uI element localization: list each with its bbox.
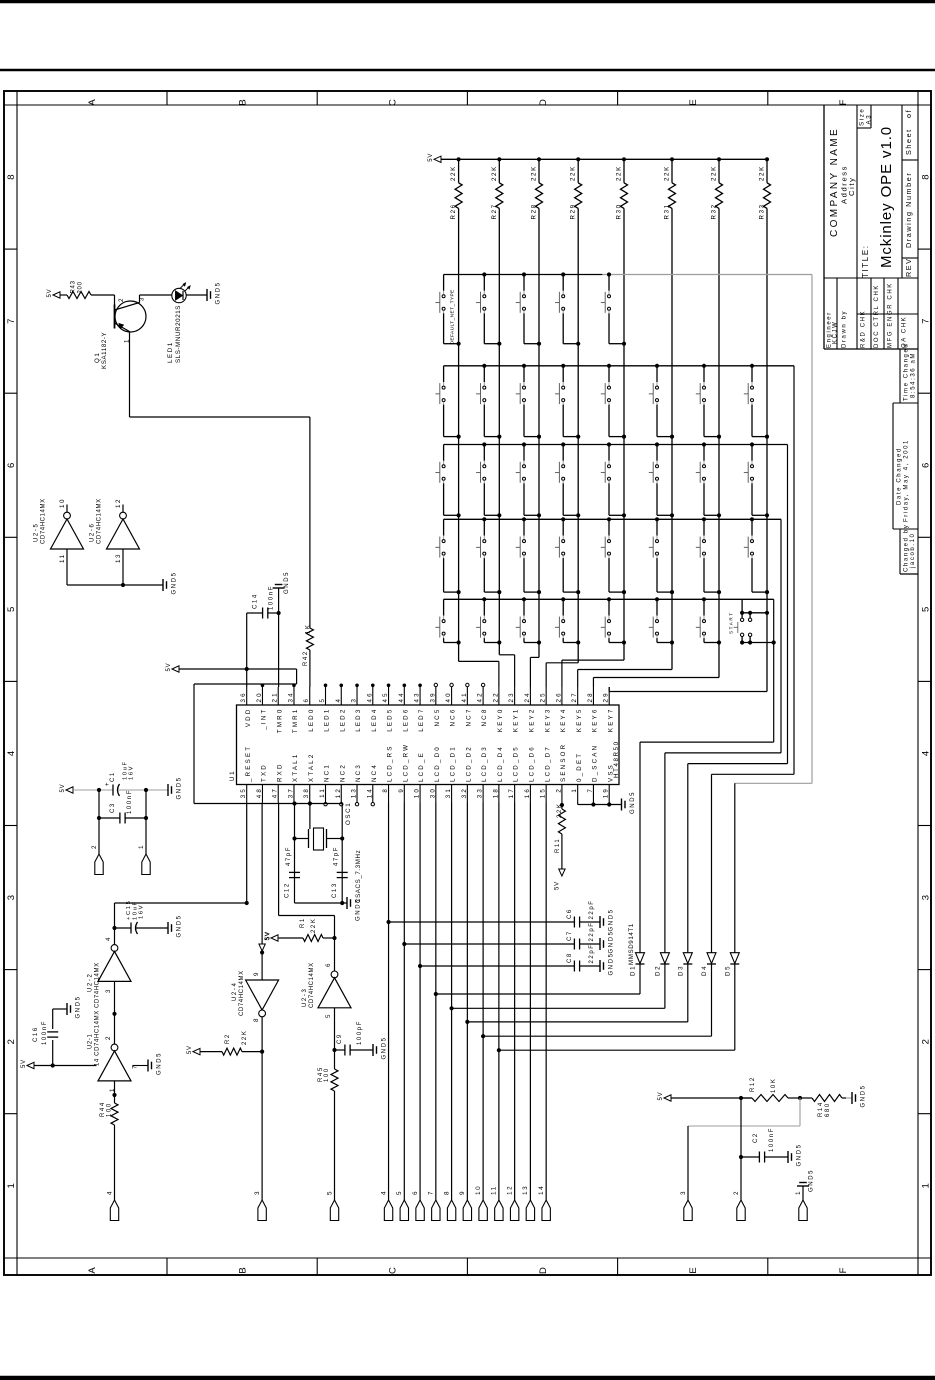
svg-text:XTAL2: XTAL2: [308, 753, 315, 782]
svg-text:30: 30: [429, 787, 436, 798]
svg-text:16V: 16V: [139, 904, 145, 919]
svg-text:34: 34: [287, 691, 294, 702]
svg-text:11: 11: [319, 787, 326, 798]
svg-text:GND5: GND5: [609, 930, 615, 953]
svg-text:100nF: 100nF: [42, 1020, 48, 1045]
svg-text:7: 7: [587, 787, 594, 793]
svg-text:31: 31: [445, 787, 452, 798]
svg-text:GND5: GND5: [797, 1143, 803, 1166]
svg-text:8: 8: [921, 174, 932, 179]
svg-text:C7: C7: [567, 930, 573, 941]
svg-text:26: 26: [555, 691, 562, 702]
svg-text:KEY4: KEY4: [560, 708, 567, 733]
svg-text:B: B: [237, 99, 248, 105]
svg-text:LCD_D3: LCD_D3: [481, 745, 488, 782]
svg-text:NC5: NC5: [434, 708, 441, 727]
svg-text:R44: R44: [100, 1101, 106, 1117]
svg-text:COMPANY NAME: COMPANY NAME: [829, 127, 840, 237]
svg-text:6: 6: [6, 463, 17, 468]
svg-text:5: 5: [325, 1013, 332, 1018]
svg-text:LCD_RW: LCD_RW: [402, 743, 409, 782]
svg-text:6: 6: [325, 962, 332, 967]
svg-text:LED3: LED3: [355, 708, 362, 732]
svg-text:Changed by: Changed by: [904, 524, 910, 572]
svg-text:R43: R43: [71, 280, 77, 293]
svg-text:KSA1182-Y: KSA1182-Y: [101, 332, 108, 369]
svg-text:40: 40: [445, 691, 452, 702]
svg-text:1K: 1K: [306, 623, 312, 634]
svg-text:17: 17: [508, 787, 515, 798]
svg-text:3: 3: [105, 988, 112, 993]
svg-text:8: 8: [382, 787, 389, 793]
svg-text:F: F: [838, 99, 849, 105]
svg-text:5V: 5V: [658, 1092, 664, 1101]
svg-text:42: 42: [477, 691, 484, 702]
svg-text:TMR0: TMR0: [276, 708, 283, 734]
svg-text:C14: C14: [253, 593, 259, 609]
svg-text:22pF: 22pF: [589, 899, 595, 919]
svg-text:REV: REV: [904, 257, 913, 277]
svg-text:LED0: LED0: [308, 708, 315, 732]
svg-text:35: 35: [240, 787, 247, 798]
svg-text:13: 13: [351, 787, 358, 798]
svg-text:22pF: 22pF: [589, 921, 595, 941]
svg-text:TMR1: TMR1: [292, 708, 299, 734]
svg-text:Mckinley OPE v1.0: Mckinley OPE v1.0: [878, 126, 895, 268]
svg-text:7: 7: [132, 1064, 139, 1069]
svg-text:5V: 5V: [166, 663, 172, 672]
svg-text:DOC CTRL CHK: DOC CTRL CHK: [874, 284, 880, 348]
svg-text:NC1: NC1: [324, 763, 331, 782]
svg-text:C3: C3: [110, 802, 116, 813]
svg-text:C2: C2: [753, 1132, 759, 1143]
svg-text:R28: R28: [531, 203, 538, 219]
svg-text:16V: 16V: [129, 765, 135, 780]
svg-text:32: 32: [461, 787, 468, 798]
svg-text:U2-1: U2-1: [88, 1034, 94, 1049]
svg-text:U2-3: U2-3: [302, 988, 308, 1007]
svg-text:R1: R1: [300, 917, 306, 928]
svg-text:4: 4: [106, 1190, 113, 1195]
svg-text:LED2: LED2: [339, 708, 346, 732]
svg-text:44: 44: [398, 691, 405, 702]
svg-text:28: 28: [587, 691, 594, 702]
svg-text:GND5: GND5: [76, 995, 82, 1018]
svg-text:LED7: LED7: [418, 708, 425, 732]
svg-text:Time Changed: Time Changed: [904, 343, 910, 401]
svg-text:NC2: NC2: [339, 763, 346, 782]
svg-text:22K: 22K: [531, 165, 538, 181]
svg-text:1: 1: [6, 1183, 17, 1188]
svg-text:5: 5: [319, 697, 326, 703]
svg-text:NC3: NC3: [355, 763, 362, 782]
svg-text:9: 9: [459, 1190, 466, 1195]
svg-text:+: +: [105, 781, 111, 786]
svg-text:Size: Size: [859, 108, 866, 126]
svg-text:CSACS_7.3MHz: CSACS_7.3MHz: [355, 850, 362, 903]
svg-text:22K: 22K: [759, 165, 766, 181]
svg-text:8: 8: [6, 174, 17, 179]
svg-text:7: 7: [6, 319, 17, 324]
svg-text:C8: C8: [567, 952, 573, 963]
svg-text:8: 8: [443, 1190, 450, 1195]
svg-text:5V: 5V: [60, 784, 66, 793]
svg-text:GND5: GND5: [630, 791, 636, 814]
svg-text:8: 8: [253, 1017, 260, 1022]
svg-text:3: 3: [351, 697, 358, 703]
svg-text:Date Changed: Date Changed: [897, 447, 903, 505]
svg-text:100nF: 100nF: [127, 789, 133, 814]
svg-text:R&D CHK: R&D CHK: [861, 310, 867, 348]
svg-text:Drawn by: Drawn by: [842, 310, 848, 348]
svg-text:C6: C6: [567, 908, 573, 919]
svg-text:RXD: RXD: [276, 762, 283, 782]
svg-text:5: 5: [326, 1190, 333, 1195]
svg-text:12: 12: [335, 787, 342, 798]
svg-text:6: 6: [303, 697, 310, 703]
svg-text:D: D: [538, 1267, 549, 1274]
svg-text:41: 41: [461, 691, 468, 702]
svg-text:680: 680: [825, 1102, 831, 1117]
svg-text:1: 1: [571, 787, 578, 793]
svg-text:B: B: [237, 1267, 248, 1273]
svg-text:9: 9: [398, 787, 405, 793]
svg-text:GND5: GND5: [216, 281, 222, 304]
svg-text:KEY0: KEY0: [497, 708, 504, 733]
svg-text:SENSOR: SENSOR: [560, 743, 567, 782]
svg-text:C13: C13: [332, 882, 338, 898]
svg-text:TITLE:: TITLE:: [861, 244, 870, 278]
svg-text:9: 9: [253, 971, 260, 976]
svg-text:100: 100: [107, 1102, 113, 1117]
svg-text:GND5: GND5: [609, 952, 615, 975]
svg-text:4: 4: [335, 697, 342, 703]
svg-text:R32: R32: [711, 203, 718, 219]
svg-text:100: 100: [324, 1067, 330, 1082]
svg-text:22K: 22K: [616, 165, 623, 181]
svg-text:LCD_D7: LCD_D7: [544, 745, 551, 782]
svg-text:GND5: GND5: [861, 1084, 867, 1107]
svg-text:10: 10: [475, 1185, 482, 1195]
svg-text:LCD_RS: LCD_RS: [387, 744, 394, 782]
svg-text:47: 47: [272, 787, 279, 798]
svg-text:5: 5: [921, 607, 932, 612]
svg-text:E: E: [688, 1267, 699, 1273]
svg-text:CD74HC14MX: CD74HC14MX: [97, 498, 103, 544]
svg-text:3: 3: [680, 1190, 687, 1195]
svg-text:NC6: NC6: [450, 708, 457, 727]
svg-text:KEY2: KEY2: [528, 708, 535, 733]
svg-text:C: C: [388, 1267, 399, 1274]
svg-text:3: 3: [6, 895, 17, 900]
svg-text:KCJW: KCJW: [833, 321, 839, 344]
svg-text:43: 43: [414, 691, 421, 702]
svg-text:45: 45: [382, 691, 389, 702]
svg-text:A: A: [87, 99, 98, 106]
svg-text:C1: C1: [110, 771, 116, 782]
svg-text:E: E: [688, 99, 699, 105]
svg-text:U1: U1: [229, 770, 236, 781]
svg-text:5: 5: [396, 1190, 403, 1195]
svg-text:27: 27: [571, 691, 578, 702]
svg-text:NC7: NC7: [465, 708, 472, 727]
svg-text:KEY3: KEY3: [544, 708, 551, 733]
svg-text:D: D: [538, 99, 549, 106]
svg-text:LED1: LED1: [324, 708, 331, 732]
svg-text:5V: 5V: [265, 932, 271, 941]
svg-text:GND5: GND5: [172, 571, 178, 594]
svg-text:2: 2: [733, 1190, 740, 1195]
svg-text:2: 2: [105, 1035, 112, 1040]
svg-text:22K: 22K: [664, 165, 671, 181]
svg-text:OSC1: OSC1: [345, 802, 352, 825]
svg-text:5V: 5V: [47, 289, 53, 298]
svg-text:CD74HC14MX: CD74HC14MX: [309, 962, 315, 1008]
svg-text:4: 4: [6, 751, 17, 756]
svg-text:GND5: GND5: [157, 1052, 163, 1075]
svg-text:R31: R31: [664, 203, 671, 219]
svg-text:2: 2: [921, 1039, 932, 1044]
svg-text:R27: R27: [491, 203, 498, 219]
svg-text:22K: 22K: [711, 165, 718, 181]
svg-text:F: F: [838, 1267, 849, 1273]
svg-text:33: 33: [477, 787, 484, 798]
svg-text:D4: D4: [701, 965, 708, 976]
svg-text:START: START: [729, 611, 734, 634]
svg-text:0_DET: 0_DET: [576, 752, 583, 782]
svg-text:R26: R26: [450, 203, 457, 219]
svg-text:GND5: GND5: [382, 1036, 388, 1059]
svg-text:CD74HC14MX: CD74HC14MX: [41, 498, 47, 544]
svg-text:4: 4: [105, 936, 112, 941]
svg-text:37: 37: [287, 787, 294, 798]
svg-text:2: 2: [91, 844, 98, 849]
svg-text:200: 200: [78, 281, 84, 293]
svg-text:LED4: LED4: [371, 708, 378, 732]
svg-text:2: 2: [118, 297, 125, 302]
svg-text:47pF: 47pF: [286, 846, 292, 866]
svg-text:3: 3: [139, 296, 146, 301]
svg-text:22K: 22K: [491, 165, 498, 181]
svg-text:VDD: VDD: [245, 708, 252, 728]
svg-text:D1: D1: [630, 965, 637, 976]
svg-text:3: 3: [921, 895, 932, 900]
svg-text:KEY7: KEY7: [607, 708, 614, 733]
svg-text:LCD_D4: LCD_D4: [497, 745, 504, 782]
svg-text:7: 7: [428, 1190, 435, 1195]
svg-text:MFG ENGR CHK: MFG ENGR CHK: [888, 282, 894, 348]
svg-text:2: 2: [6, 1039, 17, 1044]
svg-text:23: 23: [508, 691, 515, 702]
svg-text:13: 13: [115, 553, 122, 563]
svg-text:14 CD74HC14MX: 14 CD74HC14MX: [95, 1010, 101, 1066]
svg-text:10: 10: [59, 498, 66, 508]
svg-text:GND5: GND5: [177, 776, 183, 799]
svg-text:6: 6: [412, 1190, 419, 1195]
svg-text:_RESET: _RESET: [245, 745, 252, 783]
svg-text:22: 22: [492, 691, 499, 702]
svg-text:SLS-MNUR2021S: SLS-MNUR2021S: [175, 305, 182, 363]
svg-text:XTAL1: XTAL1: [292, 753, 299, 782]
svg-text:25: 25: [540, 691, 547, 702]
svg-text:22K: 22K: [242, 1030, 248, 1045]
svg-text:U2-4: U2-4: [232, 982, 238, 1001]
svg-text:22K: 22K: [450, 165, 457, 181]
svg-text:LED1: LED1: [167, 341, 174, 363]
svg-text:5V: 5V: [428, 153, 434, 162]
svg-text:R14: R14: [818, 1101, 824, 1117]
svg-text:19: 19: [603, 787, 610, 798]
svg-text:4: 4: [921, 751, 932, 756]
svg-text:13: 13: [522, 1185, 529, 1195]
svg-text:11: 11: [59, 553, 66, 563]
svg-text:5V: 5V: [21, 1059, 27, 1068]
svg-text:46: 46: [366, 691, 373, 702]
svg-text:D5: D5: [724, 965, 731, 976]
svg-text:1: 1: [921, 1183, 932, 1188]
svg-text:Sheet: Sheet: [904, 128, 913, 155]
svg-text:C12: C12: [285, 882, 291, 898]
svg-text:jacob.10: jacob.10: [910, 533, 916, 570]
svg-text:MMSD914T1: MMSD914T1: [628, 923, 635, 965]
svg-text:LCD_D2: LCD_D2: [465, 745, 472, 782]
svg-text:5V: 5V: [187, 1045, 193, 1054]
svg-text:LCD_D1: LCD_D1: [450, 745, 457, 782]
svg-text:HT48R50: HT48R50: [613, 740, 620, 778]
svg-text:100nF: 100nF: [769, 1127, 775, 1152]
svg-text:22pF: 22pF: [589, 943, 595, 963]
svg-text:C16: C16: [33, 1026, 39, 1042]
svg-text:36: 36: [240, 691, 247, 702]
svg-text:39: 39: [429, 691, 436, 702]
svg-text:22K: 22K: [557, 803, 563, 818]
svg-text:KEY5: KEY5: [576, 708, 583, 733]
svg-text:21: 21: [272, 691, 279, 702]
svg-text:CD74HC14MX: CD74HC14MX: [95, 962, 101, 1008]
svg-text:GND5: GND5: [177, 914, 183, 937]
svg-text:1: 1: [138, 844, 145, 849]
svg-text:10: 10: [414, 787, 421, 798]
svg-text:29: 29: [603, 691, 610, 702]
svg-text:GND5: GND5: [609, 908, 615, 931]
svg-text:R42: R42: [303, 650, 309, 666]
svg-text:16: 16: [524, 787, 531, 798]
svg-text:48: 48: [256, 787, 263, 798]
svg-text:R33: R33: [759, 203, 766, 219]
svg-text:10K: 10K: [771, 1078, 777, 1093]
svg-text:KEY6: KEY6: [592, 708, 599, 733]
svg-text:DEFAULT_NET_TYPE: DEFAULT_NET_TYPE: [450, 289, 456, 345]
svg-text:6: 6: [921, 463, 932, 468]
svg-text:12: 12: [506, 1185, 513, 1195]
svg-text:D2: D2: [654, 965, 661, 976]
svg-text:Friday, May 4, 2001: Friday, May 4, 2001: [904, 439, 910, 522]
svg-text:GND5: GND5: [809, 1169, 815, 1192]
svg-text:20: 20: [256, 691, 263, 702]
svg-text:100nF: 100nF: [269, 585, 275, 610]
svg-text:24: 24: [524, 691, 531, 702]
svg-text:2: 2: [555, 787, 562, 793]
svg-text:14: 14: [538, 1185, 545, 1195]
svg-text:A: A: [87, 1267, 98, 1274]
svg-text:100pF: 100pF: [357, 1020, 363, 1045]
svg-text:D3: D3: [677, 965, 684, 976]
svg-text:15: 15: [540, 787, 547, 798]
svg-text:14: 14: [366, 787, 373, 798]
svg-text:TXD: TXD: [261, 763, 268, 782]
svg-text:_INT: _INT: [261, 708, 268, 731]
svg-text:22K: 22K: [570, 165, 577, 181]
svg-text:12: 12: [115, 498, 122, 508]
svg-text:C: C: [388, 99, 399, 106]
svg-text:NC4: NC4: [371, 763, 378, 782]
svg-text:C9: C9: [337, 1033, 343, 1044]
svg-text:4: 4: [380, 1190, 387, 1195]
svg-text:1: 1: [795, 1190, 802, 1195]
svg-text:of: of: [904, 109, 913, 118]
svg-text:11: 11: [491, 1185, 498, 1195]
svg-text:R30: R30: [616, 203, 623, 219]
svg-text:U2-5: U2-5: [34, 523, 40, 542]
svg-text:3: 3: [254, 1190, 261, 1195]
svg-text:18: 18: [492, 787, 499, 798]
svg-text:CD74HC14MX: CD74HC14MX: [239, 970, 245, 1016]
svg-text:LCD_D0: LCD_D0: [434, 745, 441, 782]
svg-text:LCD_E: LCD_E: [418, 751, 425, 782]
svg-text:A3: A3: [866, 114, 873, 125]
svg-text:KEY1: KEY1: [513, 708, 520, 733]
svg-text:LCD_D6: LCD_D6: [528, 745, 535, 782]
svg-text:D_SCAN: D_SCAN: [592, 744, 599, 782]
svg-text:+C15: +C15: [126, 900, 132, 920]
svg-text:R12: R12: [750, 1076, 756, 1092]
svg-text:22K: 22K: [311, 918, 317, 933]
svg-text:5: 5: [6, 607, 17, 612]
svg-text:U2-6: U2-6: [90, 523, 96, 542]
svg-text:NC8: NC8: [481, 708, 488, 727]
svg-text:R11: R11: [555, 838, 561, 853]
svg-text:Drawing Number: Drawing Number: [904, 172, 913, 248]
svg-text:R2: R2: [225, 1033, 231, 1044]
svg-text:8:54:36 aM: 8:54:36 aM: [911, 352, 917, 398]
svg-text:City: City: [847, 177, 856, 196]
svg-text:GND5: GND5: [284, 571, 290, 594]
svg-text:38: 38: [303, 787, 310, 798]
svg-text:R29: R29: [570, 203, 577, 219]
svg-text:47pF: 47pF: [334, 846, 340, 866]
svg-text:5V: 5V: [554, 881, 560, 890]
svg-text:7: 7: [921, 319, 932, 324]
svg-text:LED6: LED6: [402, 708, 409, 732]
svg-text:LCD_D5: LCD_D5: [513, 745, 520, 782]
svg-text:Q1: Q1: [94, 352, 101, 363]
svg-text:U2-2: U2-2: [88, 973, 94, 992]
svg-text:LED5: LED5: [387, 708, 394, 732]
